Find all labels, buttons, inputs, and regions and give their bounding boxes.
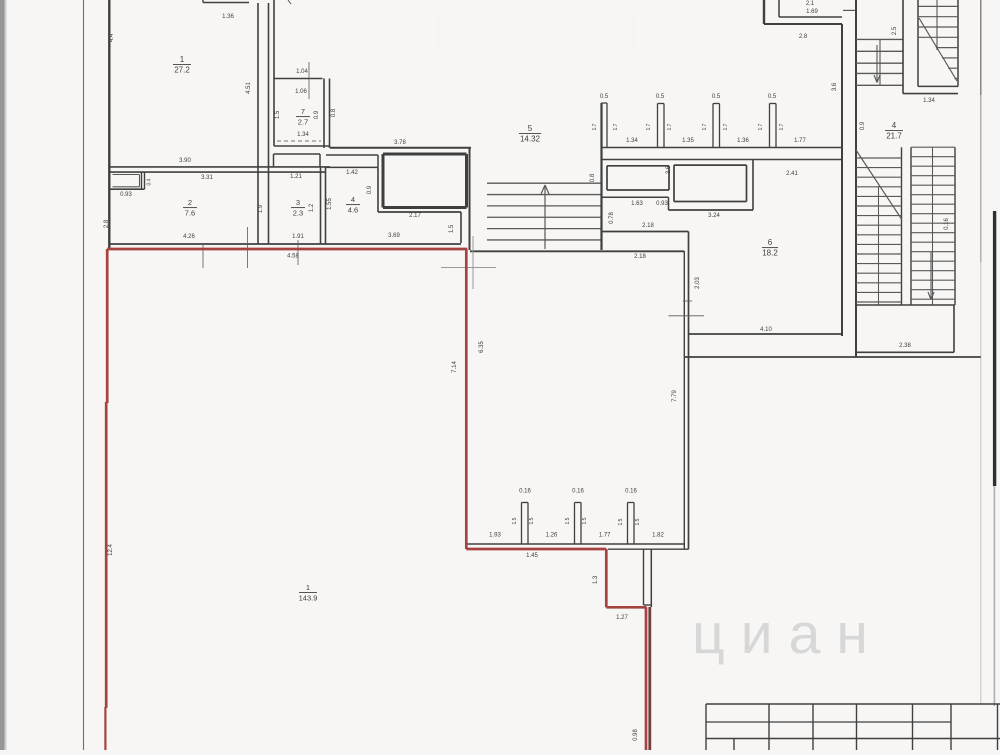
svg-text:0.9: 0.9 bbox=[367, 185, 373, 194]
svg-text:1.36: 1.36 bbox=[737, 138, 749, 144]
svg-text:14.32: 14.32 bbox=[520, 135, 541, 144]
svg-text:0.5: 0.5 bbox=[768, 94, 777, 100]
svg-text:4: 4 bbox=[892, 121, 897, 130]
svg-text:0.8: 0.8 bbox=[331, 108, 337, 117]
svg-text:12.4: 12.4 bbox=[108, 544, 114, 556]
svg-text:4: 4 bbox=[351, 195, 355, 204]
svg-text:1.34: 1.34 bbox=[626, 138, 638, 144]
svg-text:0.78: 0.78 bbox=[609, 212, 615, 224]
svg-text:1.9: 1.9 bbox=[258, 204, 264, 213]
svg-text:4.26: 4.26 bbox=[183, 234, 195, 240]
svg-text:3: 3 bbox=[296, 198, 300, 207]
svg-text:3.90: 3.90 bbox=[179, 158, 191, 164]
svg-text:6: 6 bbox=[768, 238, 773, 247]
svg-text:1.5: 1.5 bbox=[529, 517, 535, 524]
svg-text:0.5: 0.5 bbox=[656, 94, 665, 100]
svg-text:2.18: 2.18 bbox=[634, 254, 646, 260]
svg-text:2.03: 2.03 bbox=[695, 277, 701, 289]
svg-text:0.4: 0.4 bbox=[147, 178, 153, 185]
svg-text:1.93: 1.93 bbox=[489, 533, 501, 539]
svg-text:27.2: 27.2 bbox=[174, 66, 190, 75]
svg-text:2.7: 2.7 bbox=[298, 118, 308, 127]
svg-text:1: 1 bbox=[306, 583, 310, 592]
svg-text:0.16: 0.16 bbox=[625, 489, 637, 495]
svg-text:1.5: 1.5 bbox=[618, 518, 624, 525]
svg-text:1.5: 1.5 bbox=[275, 110, 281, 119]
svg-text:циан: циан bbox=[431, 0, 660, 67]
svg-text:1.5: 1.5 bbox=[635, 518, 641, 525]
svg-text:3.6: 3.6 bbox=[666, 165, 672, 174]
svg-text:0.16: 0.16 bbox=[572, 489, 584, 495]
svg-text:18.2: 18.2 bbox=[762, 249, 778, 258]
svg-text:0.16: 0.16 bbox=[944, 218, 950, 230]
svg-text:2: 2 bbox=[188, 198, 192, 207]
svg-text:3.24: 3.24 bbox=[708, 213, 720, 219]
svg-text:0.8: 0.8 bbox=[590, 173, 596, 182]
svg-text:1.7: 1.7 bbox=[779, 123, 785, 130]
svg-text:4.10: 4.10 bbox=[760, 327, 772, 333]
svg-text:1: 1 bbox=[180, 55, 185, 64]
svg-text:1.42: 1.42 bbox=[346, 170, 358, 176]
svg-text:1.45: 1.45 bbox=[526, 553, 538, 559]
svg-text:1.7: 1.7 bbox=[667, 123, 673, 130]
svg-text:0.93: 0.93 bbox=[656, 201, 668, 207]
svg-text:2.8: 2.8 bbox=[799, 34, 808, 40]
svg-text:3.6: 3.6 bbox=[832, 82, 838, 91]
svg-text:1.69: 1.69 bbox=[806, 9, 818, 15]
svg-text:5: 5 bbox=[528, 124, 533, 133]
svg-text:0.9: 0.9 bbox=[860, 121, 866, 130]
svg-text:1.7: 1.7 bbox=[702, 123, 708, 130]
svg-text:2.8: 2.8 bbox=[104, 219, 110, 228]
svg-text:1.21: 1.21 bbox=[290, 174, 302, 180]
svg-text:0.93: 0.93 bbox=[120, 192, 132, 198]
svg-text:2.1: 2.1 bbox=[806, 1, 815, 7]
svg-text:6.35: 6.35 bbox=[479, 341, 485, 353]
svg-text:21.7: 21.7 bbox=[886, 132, 902, 141]
svg-text:2.38: 2.38 bbox=[899, 343, 911, 349]
svg-text:1.34: 1.34 bbox=[923, 98, 935, 104]
svg-text:2.17: 2.17 bbox=[409, 213, 421, 219]
svg-text:4.51: 4.51 bbox=[246, 82, 252, 94]
svg-text:1.7: 1.7 bbox=[592, 123, 598, 130]
svg-text:7.14: 7.14 bbox=[452, 361, 458, 373]
svg-text:3.69: 3.69 bbox=[388, 233, 400, 239]
svg-text:7: 7 bbox=[301, 107, 305, 116]
svg-text:0.5: 0.5 bbox=[600, 94, 609, 100]
svg-text:1.34: 1.34 bbox=[297, 132, 309, 138]
svg-text:3.31: 3.31 bbox=[201, 175, 213, 181]
svg-text:1.06: 1.06 bbox=[295, 89, 307, 95]
svg-text:0.5: 0.5 bbox=[712, 94, 721, 100]
svg-text:1.7: 1.7 bbox=[758, 123, 764, 130]
svg-text:3.78: 3.78 bbox=[394, 140, 406, 146]
svg-text:1.82: 1.82 bbox=[652, 533, 664, 539]
svg-text:1.35: 1.35 bbox=[682, 138, 694, 144]
svg-text:4.6: 4.6 bbox=[348, 206, 358, 215]
svg-text:1.5: 1.5 bbox=[449, 224, 455, 233]
svg-text:1.77: 1.77 bbox=[794, 138, 806, 144]
svg-text:0.9: 0.9 bbox=[314, 110, 320, 119]
svg-text:1.5: 1.5 bbox=[565, 517, 571, 524]
svg-text:1.7: 1.7 bbox=[646, 123, 652, 130]
svg-text:1.3: 1.3 bbox=[593, 575, 599, 584]
svg-text:4.58: 4.58 bbox=[287, 254, 299, 260]
svg-text:1.5: 1.5 bbox=[512, 517, 518, 524]
svg-text:1.5: 1.5 bbox=[582, 517, 588, 524]
svg-text:1.04: 1.04 bbox=[296, 69, 308, 75]
svg-text:1.7: 1.7 bbox=[723, 123, 729, 130]
svg-text:0.98: 0.98 bbox=[633, 729, 639, 741]
svg-text:2.18: 2.18 bbox=[642, 223, 654, 229]
svg-text:143.9: 143.9 bbox=[299, 594, 318, 603]
svg-text:1.27: 1.27 bbox=[616, 615, 628, 621]
svg-text:4.4: 4.4 bbox=[109, 33, 115, 42]
svg-text:7.79: 7.79 bbox=[672, 390, 678, 402]
svg-text:1.2: 1.2 bbox=[309, 203, 315, 212]
svg-text:1.77: 1.77 bbox=[599, 533, 611, 539]
svg-text:1.36: 1.36 bbox=[222, 14, 234, 20]
svg-text:1.55: 1.55 bbox=[327, 198, 333, 210]
svg-text:2.41: 2.41 bbox=[786, 171, 798, 177]
svg-text:циан: циан bbox=[692, 602, 884, 666]
svg-text:2.5: 2.5 bbox=[892, 26, 898, 35]
svg-text:2.3: 2.3 bbox=[293, 209, 303, 218]
svg-text:1.91: 1.91 bbox=[292, 234, 304, 240]
svg-text:1.7: 1.7 bbox=[613, 123, 619, 130]
svg-text:1.26: 1.26 bbox=[546, 533, 558, 539]
svg-text:7.6: 7.6 bbox=[185, 209, 195, 218]
svg-text:0.16: 0.16 bbox=[519, 489, 531, 495]
svg-text:1.63: 1.63 bbox=[631, 201, 643, 207]
